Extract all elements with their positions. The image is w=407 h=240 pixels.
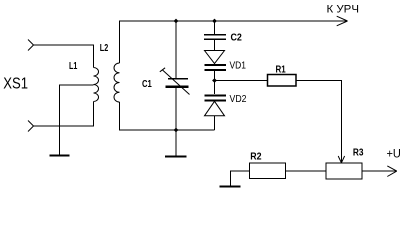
wire tap to ground (59, 85, 61, 156)
svg-text:C1: C1 (142, 79, 152, 90)
wire C1 top (175, 21, 177, 79)
wire VD1 to VD2 (214, 71, 216, 94)
svg-text:C2: C2 (231, 33, 243, 44)
wire C2 to VD1 (214, 40, 216, 51)
inductor L2 (114, 63, 119, 102)
diode VD1 (205, 51, 225, 64)
resistor R2 (250, 163, 286, 179)
arrow wiper R3 (338, 156, 344, 163)
wire node to R1 (215, 80, 268, 82)
inductor L1 (94, 68, 99, 102)
svg-text:XS1: XS1 (3, 76, 28, 93)
wire R1 to R3 wiper (297, 81, 342, 163)
wire top rail (120, 21, 348, 63)
wire R3 to +U (362, 170, 397, 172)
resistor R3 (326, 163, 362, 179)
capacitor C2 (204, 34, 226, 36)
wire VD2 bottom to rail (214, 116, 216, 130)
svg-text:R3: R3 (353, 148, 364, 159)
ground (C1) (165, 156, 187, 158)
wire C2 branch top (214, 21, 216, 34)
diode VD2 (205, 94, 227, 96)
ground (R2) (220, 186, 241, 188)
wire pin2 to L1 bottom (34, 102, 94, 127)
ground (L1 tap) (50, 155, 70, 157)
capacitor C1 (168, 78, 188, 80)
resistor R1 (268, 75, 297, 87)
wire R2 left to ground (231, 171, 250, 186)
arrow to URCh (337, 16, 348, 26)
node VD1/VD2/R1 (212, 78, 217, 83)
wire L1 tap (60, 84, 94, 86)
svg-text:+U: +U (387, 147, 401, 161)
svg-text:К УРЧ: К УРЧ (327, 4, 360, 16)
wire L2 bottom rail (120, 102, 215, 130)
svg-text:L1: L1 (69, 61, 78, 72)
node C1 bottom rail (174, 128, 179, 133)
node top C2 (212, 19, 217, 24)
svg-text:R2: R2 (250, 152, 262, 163)
wire C1 bottom to ground (175, 88, 177, 156)
wire R2 to R3 (286, 170, 327, 172)
svg-text:VD2: VD2 (230, 94, 247, 105)
connector XS1 pin 2 (28, 121, 34, 132)
svg-text:R1: R1 (276, 65, 287, 76)
arrow +U (387, 166, 397, 177)
connector XS1 pin 1 (28, 40, 34, 51)
wire pin1 to L1 top (34, 45, 94, 68)
svg-text:VD1: VD1 (230, 61, 247, 72)
node top C1 (174, 19, 179, 24)
svg-text:L2: L2 (100, 43, 109, 54)
